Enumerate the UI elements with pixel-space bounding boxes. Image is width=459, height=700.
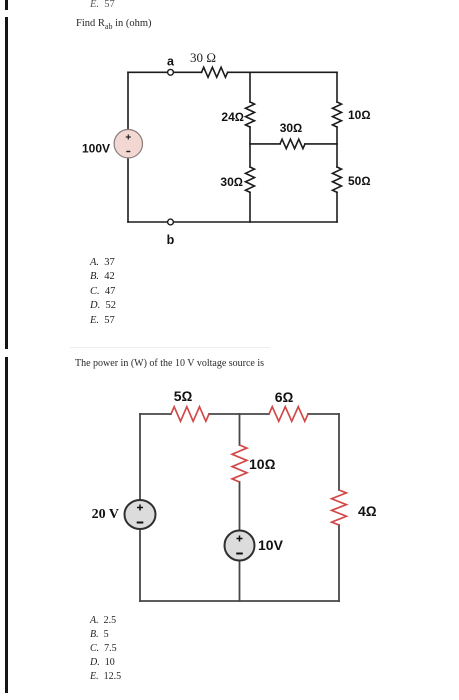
resistor 4Ω — [332, 490, 347, 525]
left scan bar segments (decorative) — [5, 0, 8, 10]
voltage source 10V — [225, 531, 255, 561]
svg-text:50Ω: 50Ω — [348, 174, 371, 188]
wire bottom rail — [128, 221, 168, 223]
resistor 5Ω — [171, 407, 209, 422]
resistor 10Ω — [333, 102, 342, 127]
wire middle branch between resistors — [249, 127, 251, 167]
svg-text:a: a — [167, 55, 175, 69]
wire resistor to top-right corner — [228, 71, 337, 73]
wire top rail right — [308, 413, 339, 415]
wire middle branch top stub — [249, 72, 251, 102]
svg-text:100V: 100V — [82, 142, 110, 156]
question 1 text — [76, 18, 152, 31]
resistor 30Ω bridge — [280, 139, 305, 148]
svg-text:10Ω: 10Ω — [348, 108, 371, 122]
resistor 30Ω lower-middle — [246, 167, 255, 192]
question 2 text — [75, 358, 264, 369]
svg-text:30Ω: 30Ω — [220, 175, 243, 189]
voltage source 20V — [125, 500, 156, 529]
wire top rail mid — [209, 413, 269, 415]
wire bottom rail — [140, 600, 339, 602]
svg-text:10V: 10V — [258, 537, 284, 553]
svg-text:6Ω: 6Ω — [275, 389, 294, 405]
wire middle branch top stub — [239, 414, 241, 445]
voltage source 100V — [114, 130, 142, 158]
svg-text:30Ω: 30Ω — [280, 121, 303, 135]
node b — [168, 219, 174, 225]
wire middle branch bottom — [239, 561, 241, 602]
wire left branch upper — [139, 414, 141, 500]
wire top rail left — [140, 413, 171, 415]
wire bridge right segment — [305, 143, 337, 145]
node a — [168, 69, 174, 75]
resistor 30Ω top — [202, 67, 228, 77]
wire right branch upper — [338, 414, 340, 490]
svg-text:30 Ω: 30 Ω — [190, 50, 216, 65]
resistor 50Ω — [333, 167, 342, 192]
wire right branch top stub — [336, 72, 338, 102]
wire middle branch bottom — [249, 192, 251, 222]
resistor 10Ω vertical — [232, 445, 247, 482]
wire node a to resistor — [174, 71, 202, 73]
wire right branch lower — [338, 525, 340, 601]
resistor 6Ω — [269, 407, 308, 422]
answers question 1 — [90, 256, 116, 328]
wire bridge left segment — [250, 143, 280, 145]
previous answer E. 57 (cut off at top) — [90, 0, 115, 12]
wire right branch bottom — [336, 192, 338, 222]
wire right branch middle — [336, 127, 338, 167]
svg-text:5Ω: 5Ω — [174, 388, 193, 404]
wire left branch lower — [127, 158, 129, 222]
svg-text:20 V: 20 V — [92, 507, 119, 522]
wire left branch lower — [139, 530, 141, 602]
svg-text:24Ω: 24Ω — [221, 110, 244, 124]
wire left branch upper — [127, 72, 129, 129]
resistor 24Ω — [246, 102, 255, 127]
answers question 2 — [90, 614, 121, 684]
svg-text:4Ω: 4Ω — [358, 503, 377, 519]
wire top-left (corner to node a) — [128, 71, 168, 73]
svg-text:b: b — [167, 233, 175, 247]
wire middle branch mid — [239, 482, 241, 531]
svg-text:10Ω: 10Ω — [249, 456, 276, 472]
